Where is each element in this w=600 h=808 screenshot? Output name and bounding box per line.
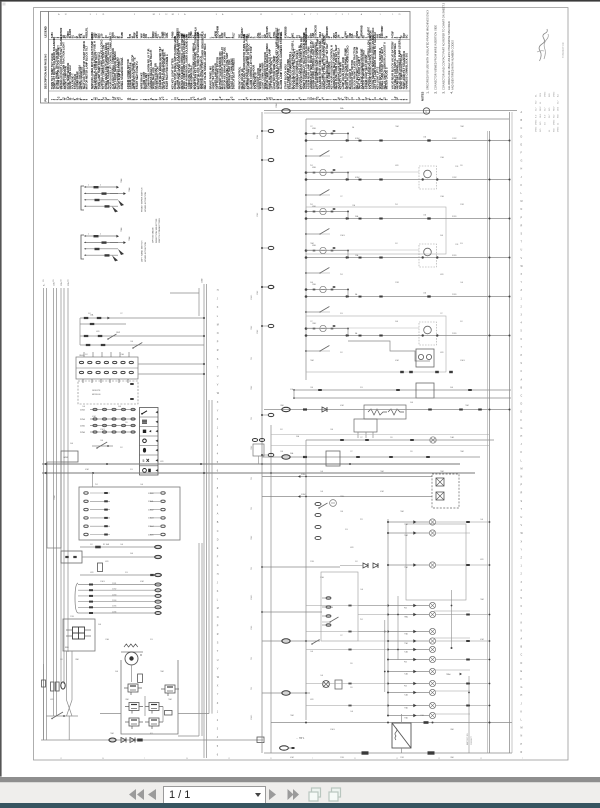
ladder left bus ovals <box>268 129 274 132</box>
svg-text:2CB1: 2CB1 <box>452 294 457 296</box>
rail end component <box>257 737 264 743</box>
svg-text:P05: P05 <box>404 686 407 688</box>
svg-text:2CA15: 2CA15 <box>250 295 253 300</box>
svg-text:3CB1: 3CB1 <box>452 255 457 257</box>
relay unit 4 row wire <box>306 257 510 259</box>
svg-text:DESCRIPTION AND PAGE NO: DESCRIPTION AND PAGE NO <box>45 54 48 89</box>
svg-text:1: 1 <box>178 14 179 16</box>
svg-text:WD: WD <box>554 128 556 132</box>
svg-text:METER GAUGE S: METER GAUGE S <box>385 67 389 89</box>
svg-text:5CA13: 5CA13 <box>148 517 154 520</box>
svg-text:SWITCH SEAT HARNESS: SWITCH SEAT HARNESS <box>232 58 236 89</box>
last page button <box>287 789 299 801</box>
svg-text:4SW: 4SW <box>90 572 94 574</box>
flasher box <box>364 405 406 419</box>
svg-text:F1 10A: F1 10A <box>103 543 110 546</box>
first page button <box>129 789 145 801</box>
svg-text:SPECIFIED FOR USE WITH INSULAT: SPECIFIED FOR USE WITH INSULATED FRAME M… <box>426 10 430 90</box>
diode block box <box>354 419 377 432</box>
svg-text:7TA1: 7TA1 <box>404 707 408 710</box>
mid cross wire 2 <box>262 611 322 613</box>
svg-text:SWITCH CONNECTORS: SWITCH CONNECTORS <box>159 218 161 243</box>
rail diode 1 <box>121 738 126 743</box>
rail diode 2 <box>130 738 135 743</box>
ladder switch stubs <box>306 155 330 157</box>
svg-text:7TA1: 7TA1 <box>404 642 408 645</box>
mid gap connector cluster <box>252 439 257 442</box>
left fuse pair <box>51 682 55 691</box>
svg-text:2CN4: 2CN4 <box>70 616 74 618</box>
bottom rail components <box>362 751 369 754</box>
browser top bar <box>0 0 600 2</box>
svg-text:12: 12 <box>260 14 262 16</box>
svg-text:START SEAT FUSE TU: START SEAT FUSE TU <box>135 61 139 89</box>
svg-text:B2: B2 <box>172 14 174 16</box>
svg-text:1.: 1. <box>427 91 430 93</box>
svg-text:2ES: 2ES <box>558 106 560 111</box>
svg-text:CA101: CA101 <box>79 354 85 357</box>
svg-text:117: 117 <box>340 196 343 198</box>
svg-text:21: 21 <box>102 14 104 16</box>
svg-text:7RA2: 7RA2 <box>250 536 253 540</box>
relay unit 6 row wire <box>306 335 510 337</box>
spare row <box>80 574 162 576</box>
motor controller outline <box>121 652 178 734</box>
row interconnect verticals <box>79 318 81 345</box>
terminal dots row <box>400 371 404 373</box>
svg-text:NO: NO <box>549 107 551 111</box>
svg-text:3: 3 <box>342 14 343 16</box>
svg-text:1: 1 <box>88 234 89 236</box>
relay contact row 1 <box>80 335 204 337</box>
svg-text:HN1: HN1 <box>64 457 69 459</box>
svg-text:R75CMC65: R75CMC65 <box>314 25 317 39</box>
svg-text:P05: P05 <box>404 662 407 664</box>
diode row lower <box>363 563 368 568</box>
mid cross wire 1 <box>262 566 340 568</box>
lamp L6 <box>388 631 429 633</box>
svg-text:2CB1: 2CB1 <box>452 333 457 335</box>
relay unit 1 switch <box>319 151 329 157</box>
svg-text:P05: P05 <box>340 274 343 276</box>
scrollbar corner artifact <box>3 3 6 6</box>
key switch oval top <box>282 109 290 113</box>
svg-text:3: 3 <box>90 14 91 16</box>
svg-text:3.: 3. <box>443 91 446 93</box>
svg-text:5CA2: 5CA2 <box>301 493 306 496</box>
joystick connector group 1 <box>81 186 84 210</box>
legend band divider top <box>49 39 411 41</box>
svg-text:NO: NO <box>540 121 542 125</box>
svg-text:301: 301 <box>88 313 91 315</box>
svg-text:DWG: DWG <box>536 126 538 132</box>
legend table box <box>41 12 411 104</box>
svg-text:G: G <box>425 110 427 113</box>
svg-text:CONNECTOR AND CONTACT PART NO: CONNECTOR AND CONTACT PART NO REFER TO C… <box>442 2 446 90</box>
svg-text:12: 12 <box>228 758 230 760</box>
relay unit 3 switch <box>319 229 329 235</box>
svg-text:7TA1: 7TA1 <box>404 523 408 526</box>
converter transformer <box>392 723 411 748</box>
svg-text:F10: F10 <box>340 313 343 315</box>
legend band divider bottom <box>49 90 411 92</box>
relay unit 6 coil <box>306 328 348 330</box>
svg-text:7: 7 <box>312 758 313 760</box>
svg-text:117: 117 <box>360 437 363 439</box>
svg-text:485SLRL: 485SLRL <box>85 27 88 38</box>
svg-text:12: 12 <box>65 14 67 16</box>
svg-text:168L: 168L <box>166 32 169 38</box>
right main bus inner <box>489 131 491 753</box>
svg-text:N: N <box>217 616 219 619</box>
svg-text:7RA0: 7RA0 <box>446 673 451 676</box>
svg-text:R: R <box>521 492 523 495</box>
fuse row 1 <box>80 317 204 319</box>
relay ladder frame <box>306 118 509 120</box>
svg-text:1SW: 1SW <box>116 332 120 334</box>
svg-text:H: H <box>217 289 219 292</box>
svg-text:7: 7 <box>317 14 318 16</box>
svg-text:P16: P16 <box>251 567 253 570</box>
svg-text:P16: P16 <box>251 417 253 420</box>
svg-text:F10: F10 <box>360 387 363 389</box>
svg-text:6CA2: 6CA2 <box>355 176 360 179</box>
previous page button <box>147 789 157 801</box>
upper bus rail right <box>271 722 512 724</box>
svg-text:TOWMOTOR: TOWMOTOR <box>561 42 565 58</box>
svg-text:21: 21 <box>270 758 272 760</box>
turn switch <box>318 503 327 509</box>
lamp ladder aux verticals <box>384 620 386 692</box>
right bus doubles <box>487 131 489 753</box>
svg-text:CONNECT: CONNECT <box>471 735 473 745</box>
bottom status bar <box>0 803 600 808</box>
hour meter circle <box>423 108 429 114</box>
svg-text:301: 301 <box>355 561 358 563</box>
svg-text:D: D <box>217 538 219 541</box>
svg-text:← HP 1: ← HP 1 <box>296 737 305 740</box>
svg-text:301: 301 <box>85 354 88 356</box>
relay unit 1 row wire <box>306 140 510 142</box>
IO box <box>79 487 180 540</box>
svg-text:1CB2: 1CB2 <box>452 138 457 140</box>
left vertical bus pair A <box>43 288 45 740</box>
mosfet Q3 <box>129 703 139 711</box>
svg-text:N: N <box>521 208 523 211</box>
mosfet Q6 <box>149 718 159 726</box>
svg-text:2: 2 <box>100 234 101 236</box>
lamp L5 <box>388 614 429 616</box>
mid long wire 1 <box>294 389 511 391</box>
svg-text:R: R <box>521 751 523 754</box>
mosfet Q5 <box>129 718 139 726</box>
right mid vertical feeder <box>305 440 307 720</box>
fuse block pins <box>66 629 73 631</box>
svg-text:12: 12 <box>60 758 62 760</box>
svg-text:117: 117 <box>310 126 313 128</box>
svg-text:P05: P05 <box>310 204 313 206</box>
svg-text:M: M <box>521 727 523 730</box>
svg-text:NOTES: NOTES <box>421 92 425 101</box>
svg-text:7DA5: 7DA5 <box>120 179 123 184</box>
svg-text:2ES: 2ES <box>540 92 542 97</box>
svg-text:P16: P16 <box>251 477 253 480</box>
svg-text:315: 315 <box>53 279 55 282</box>
svg-text:518B: 518B <box>121 32 124 38</box>
fuse row 2 <box>80 323 126 325</box>
svg-text:M: M <box>140 654 142 657</box>
relay contact row 2 <box>80 344 204 346</box>
svg-text:209: 209 <box>125 422 128 424</box>
turn signal coil <box>330 500 337 507</box>
joystick connector group 2 <box>81 235 84 259</box>
svg-text:1RA2: 1RA2 <box>312 322 316 325</box>
svg-text:2CB3: 2CB3 <box>395 282 399 284</box>
svg-text:7TA1: 7TA1 <box>404 566 408 569</box>
resistor vertical <box>98 563 103 572</box>
svg-text:P21: P21 <box>360 519 363 521</box>
svg-text:NO: NO <box>540 128 542 132</box>
svg-text:301: 301 <box>340 352 343 354</box>
funnel merge <box>67 700 73 716</box>
svg-text:7LA1: 7LA1 <box>450 436 454 439</box>
svg-text:ALARM LAMP CONTROL HARNESS STO: ALARM LAMP CONTROL HARNESS STOP VAL <box>279 31 283 89</box>
svg-text:OPTION VALVE: OPTION VALVE <box>152 227 155 243</box>
svg-text:209: 209 <box>350 663 353 665</box>
svg-text:315: 315 <box>43 279 45 282</box>
pdf viewer toolbar <box>0 782 600 804</box>
lever switch <box>92 445 113 447</box>
svg-text:117: 117 <box>310 321 313 323</box>
legend location mini row <box>58 13 400 16</box>
svg-text:REV: REV <box>540 106 542 111</box>
svg-text:301: 301 <box>395 243 398 245</box>
lamp L12 <box>388 692 429 694</box>
export icon 2 <box>328 787 342 802</box>
left vertical bus D <box>67 288 69 652</box>
battery <box>280 746 289 750</box>
svg-text:7LA2: 7LA2 <box>404 651 408 654</box>
approval signature <box>539 29 547 61</box>
svg-text:P16: P16 <box>251 657 253 660</box>
svg-text:3: 3 <box>159 14 160 16</box>
svg-text:209: 209 <box>310 149 313 151</box>
svg-text:1GA4: 1GA4 <box>53 495 56 500</box>
svg-text:117: 117 <box>120 313 123 315</box>
svg-text:2CA15: 2CA15 <box>250 715 253 720</box>
relay unit 5 row wire <box>306 296 510 298</box>
svg-text:C: C <box>521 395 523 398</box>
controller pin marks <box>130 383 134 385</box>
svg-text:301: 301 <box>280 429 283 431</box>
svg-text:FRONT WIPER SWITCH: FRONT WIPER SWITCH <box>142 187 144 212</box>
svg-text:7TA1: 7TA1 <box>404 717 408 720</box>
svg-text:2.: 2. <box>435 91 438 93</box>
svg-text:RELAY VALVE SIGNAL ALARM TRAC: RELAY VALVE SIGNAL ALARM TRAC <box>203 43 207 89</box>
svg-text:PG: PG <box>45 98 48 102</box>
svg-text:117: 117 <box>350 451 353 453</box>
svg-text:N: N <box>217 332 219 335</box>
right main bus outer <box>509 112 511 753</box>
svg-text:1CN2: 1CN2 <box>80 410 85 412</box>
svg-text:H: H <box>521 168 523 171</box>
svg-text:7RA2: 7RA2 <box>250 446 253 450</box>
relay unit 3 row wire <box>306 218 510 220</box>
rail 1 <box>42 463 460 465</box>
svg-text:2CN5: 2CN5 <box>112 606 116 608</box>
svg-text:N: N <box>521 735 523 738</box>
svg-text:MODULE: MODULE <box>92 394 101 396</box>
title block text grid <box>536 91 560 132</box>
svg-text:7: 7 <box>522 758 523 760</box>
stepped wire <box>348 341 430 361</box>
strip to bus wires <box>138 363 204 365</box>
left fuse 1 <box>43 664 45 740</box>
svg-text:M: M <box>217 323 219 326</box>
svg-text:117: 117 <box>340 157 343 159</box>
fusebox tails <box>66 651 68 700</box>
relay box with coils <box>416 349 434 367</box>
svg-text:5CA3: 5CA3 <box>256 213 259 217</box>
right block left bus <box>261 112 263 753</box>
svg-text:H: H <box>521 435 523 438</box>
mosfet Q4 <box>149 703 159 711</box>
connector strip box CA101 <box>76 357 138 379</box>
relay unit 6 relay module <box>419 322 437 345</box>
svg-text:7RA2: 7RA2 <box>250 326 253 330</box>
svg-text:3: 3 <box>216 14 217 16</box>
svg-text:4SW: 4SW <box>440 274 444 276</box>
svg-text:G: G <box>217 564 219 567</box>
svg-text:21: 21 <box>399 14 401 16</box>
svg-text:REV: REV <box>554 106 556 111</box>
svg-text:4SW: 4SW <box>350 547 354 549</box>
svg-text:301: 301 <box>460 321 463 323</box>
lamp L4 <box>388 605 429 607</box>
svg-text:G: G <box>521 160 523 163</box>
svg-text:WD: WD <box>558 114 560 118</box>
svg-text:F10: F10 <box>345 529 348 531</box>
svg-text:LEVER 4 POSITION: LEVER 4 POSITION <box>145 192 147 212</box>
svg-text:7RA2: 7RA2 <box>250 386 253 390</box>
svg-text:5CA11: 5CA11 <box>148 500 153 503</box>
svg-text:209: 209 <box>390 437 393 439</box>
controller dashed box <box>78 381 138 404</box>
svg-text:2CN6: 2CN6 <box>80 432 85 434</box>
relay module mid <box>416 383 434 398</box>
svg-text:5CA10: 5CA10 <box>148 492 154 495</box>
svg-text:1CA4: 1CA4 <box>256 135 259 139</box>
svg-text:7DA5: 7DA5 <box>120 228 123 233</box>
relay unit 1 coil <box>306 133 348 135</box>
svg-text:U: U <box>217 659 219 662</box>
svg-text:5CA12: 5CA12 <box>148 508 154 511</box>
lamp feeder wires <box>306 605 388 607</box>
svg-text:7DA6: 7DA6 <box>128 188 131 193</box>
brake switch <box>46 715 78 717</box>
svg-text:7TA1: 7TA1 <box>404 633 408 636</box>
svg-text:209: 209 <box>60 659 63 661</box>
svg-text:P05: P05 <box>404 608 407 610</box>
svg-text:12: 12 <box>438 758 440 760</box>
svg-text:301: 301 <box>120 447 123 449</box>
left vertical bus pair C <box>60 288 62 684</box>
svg-text:7: 7 <box>144 758 145 760</box>
svg-text:34: 34 <box>102 758 104 760</box>
svg-text:117: 117 <box>440 313 443 315</box>
svg-text:AND IDENTIFIED WITH NUMBER COD: AND IDENTIFIED WITH NUMBER CODES <box>450 40 454 90</box>
svg-text:21: 21 <box>354 758 356 760</box>
svg-text:209: 209 <box>460 165 463 167</box>
svg-text:118: 118 <box>61 279 63 282</box>
svg-text:2CN4: 2CN4 <box>80 419 85 421</box>
svg-text:D: D <box>521 662 523 665</box>
svg-text:3: 3 <box>291 14 292 16</box>
indicator symbol table <box>140 408 159 476</box>
horn box <box>61 451 78 462</box>
rail drop to IO box <box>92 473 94 487</box>
relay unit 2 row wire <box>306 179 510 181</box>
lamp L9 <box>388 659 429 661</box>
pin column box <box>321 572 358 641</box>
mid long wire 2 <box>294 397 511 399</box>
controller pins top <box>83 379 128 383</box>
rail arrows <box>44 463 47 466</box>
page bottom shadow <box>0 777 600 782</box>
svg-text:DWG: DWG <box>554 91 556 97</box>
relay unit 2 relay module <box>419 166 437 189</box>
lower connector oval <box>262 692 310 694</box>
svg-text:H: H <box>521 694 523 697</box>
svg-text:F10: F10 <box>150 639 153 641</box>
svg-text:R: R <box>217 349 219 352</box>
svg-text:2CB3: 2CB3 <box>460 204 464 206</box>
svg-text:B2: B2 <box>153 14 155 16</box>
svg-text:7: 7 <box>310 14 311 16</box>
svg-text:2CN4: 2CN4 <box>340 757 344 759</box>
upper lamp area wires <box>271 434 490 436</box>
brush resistor comb <box>124 644 138 647</box>
pin box internal switch <box>329 617 338 623</box>
svg-text:6CA2: 6CA2 <box>355 137 360 140</box>
svg-text:M: M <box>521 200 523 203</box>
svg-text:4.: 4. <box>451 91 454 93</box>
svg-text:1: 1 <box>88 185 89 187</box>
armature resistor <box>138 674 143 682</box>
relay unit 5 coil <box>306 289 348 291</box>
relay unit 3 coil <box>306 211 348 213</box>
svg-text:G: G <box>521 686 523 689</box>
svg-text:7: 7 <box>348 14 349 16</box>
svg-text:M: M <box>217 607 219 610</box>
svg-text:F10: F10 <box>150 733 153 735</box>
svg-text:P16: P16 <box>251 687 253 690</box>
relay unit 2 switch <box>319 190 329 196</box>
svg-text:F10: F10 <box>460 243 463 245</box>
relay unit 2 breaker <box>359 179 362 181</box>
harness 6-wire group <box>75 583 78 613</box>
svg-text:209: 209 <box>410 451 413 453</box>
svg-text:MBC0: MBC0 <box>136 31 139 39</box>
switch box row <box>61 551 82 563</box>
svg-text:START TRACTION ASSEM A: START TRACTION ASSEM A <box>165 54 169 89</box>
svg-text:7LA2: 7LA2 <box>404 694 408 697</box>
svg-text:117: 117 <box>340 635 343 637</box>
svg-text:DWG: DWG <box>545 91 547 97</box>
svg-text:5CA3: 5CA3 <box>256 291 259 295</box>
left oval connector <box>61 682 65 689</box>
svg-text:12: 12 <box>396 758 398 760</box>
